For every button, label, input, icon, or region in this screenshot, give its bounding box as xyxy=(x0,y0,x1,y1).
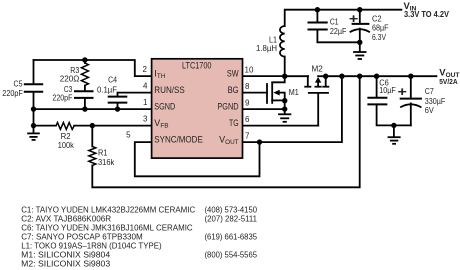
svg-text:3: 3 xyxy=(143,115,148,124)
svg-text:TG: TG xyxy=(229,118,239,128)
svg-text:7: 7 xyxy=(245,131,250,140)
svg-text:316k: 316k xyxy=(98,157,115,167)
svg-text:6V: 6V xyxy=(425,105,434,115)
svg-text:100k: 100k xyxy=(58,140,75,150)
svg-text:(800) 554-5565: (800) 554-5565 xyxy=(205,250,258,260)
svg-text:C7: C7 xyxy=(425,86,434,96)
svg-text:220Ω: 220Ω xyxy=(60,73,80,83)
svg-text:3.3V TO 4.2V: 3.3V TO 4.2V xyxy=(404,10,450,19)
svg-text:2: 2 xyxy=(143,65,148,74)
svg-text:1: 1 xyxy=(143,98,148,107)
svg-text:C5: C5 xyxy=(14,78,23,88)
svg-text:SW: SW xyxy=(227,68,239,78)
svg-text:C4: C4 xyxy=(108,75,117,85)
svg-text:5V/2A: 5V/2A xyxy=(439,77,458,86)
svg-text:6: 6 xyxy=(245,115,250,124)
svg-text:PGND: PGND xyxy=(217,101,239,111)
svg-text:M2: M2 xyxy=(312,63,324,73)
svg-text:LTC1700: LTC1700 xyxy=(182,61,212,71)
svg-text:SGND: SGND xyxy=(154,101,175,111)
svg-text:10µF: 10µF xyxy=(379,85,396,95)
svg-text:5: 5 xyxy=(126,131,131,140)
svg-text:4: 4 xyxy=(143,82,148,91)
svg-text:1.8µH: 1.8µH xyxy=(256,43,277,53)
svg-text:6.3V: 6.3V xyxy=(372,32,386,42)
svg-text:(207) 282-5111: (207) 282-5111 xyxy=(205,214,258,224)
svg-text:10: 10 xyxy=(245,65,254,74)
svg-text:(619) 661-6835: (619) 661-6835 xyxy=(205,232,258,242)
svg-text:SYNC/MODE: SYNC/MODE xyxy=(154,134,203,144)
svg-text:220pF: 220pF xyxy=(2,88,23,98)
svg-text:0.1µF: 0.1µF xyxy=(97,84,117,94)
svg-text:+: + xyxy=(398,85,407,99)
svg-text:RUN/SS: RUN/SS xyxy=(154,85,185,95)
svg-text:8: 8 xyxy=(245,82,250,91)
svg-text:M1: M1 xyxy=(289,87,299,97)
svg-text:22µF: 22µF xyxy=(330,26,347,36)
svg-text:220pF: 220pF xyxy=(52,93,72,103)
svg-text:BG: BG xyxy=(228,85,239,95)
svg-text:9: 9 xyxy=(245,98,250,107)
svg-text:+: + xyxy=(349,12,358,26)
svg-text:M2: SILICONIX Si9803: M2: SILICONIX Si9803 xyxy=(21,259,110,269)
